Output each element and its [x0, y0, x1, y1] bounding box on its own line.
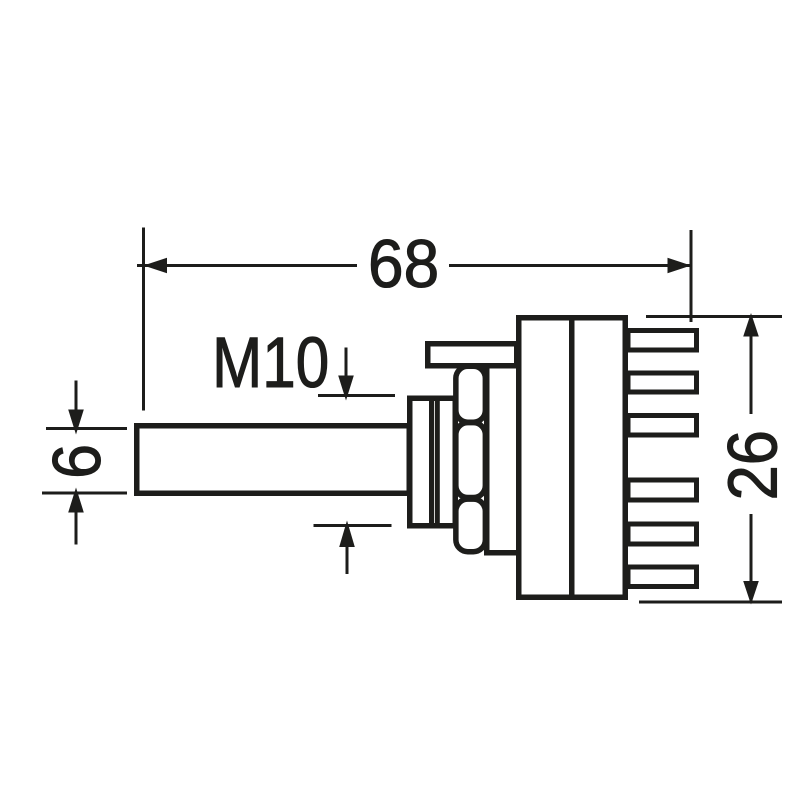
dim 6 arrowhead up-pointing — [68, 488, 84, 513]
pin 4 — [628, 480, 697, 500]
bushing thread line 1 — [429, 398, 434, 526]
M10 lower arrow shaft — [346, 546, 349, 574]
svg-text:6: 6 — [39, 444, 115, 479]
M10 upper reference line — [318, 394, 395, 397]
dim 26 line upper segment — [750, 317, 753, 415]
dim 68 extension line right — [690, 230, 693, 322]
anti-rotation tab — [428, 344, 517, 366]
M10 upper arrowhead down-pointing — [338, 376, 354, 401]
dim 26 arrow up — [743, 313, 759, 337]
dim 26 extension line bottom — [639, 601, 782, 604]
svg-text:26: 26 — [715, 430, 793, 500]
bushing thread line 2 — [435, 398, 440, 526]
body internal line — [569, 317, 575, 598]
pin 6 — [628, 567, 697, 587]
M10 upper arrow shaft — [345, 348, 348, 379]
dim 68 extension line left — [142, 228, 145, 411]
dim 6 extension line bottom — [42, 492, 127, 495]
dim 26 line lower segment — [750, 514, 753, 602]
dim 6 arrow shaft up — [75, 381, 78, 413]
dim 26 extension line top — [646, 315, 782, 318]
pin 3 — [628, 416, 697, 436]
dim 68 arrow right — [668, 258, 692, 274]
dim 26 arrow down — [743, 581, 759, 605]
hex nut facet 3 (bottom) — [456, 499, 486, 552]
dim 6 extension line top — [46, 427, 127, 430]
switch body — [519, 318, 626, 598]
svg-text:M10: M10 — [212, 322, 329, 402]
hex nut facet 2 (middle) — [456, 423, 486, 498]
pin 1 — [628, 331, 697, 351]
dim 6 arrow shaft down — [75, 511, 78, 545]
dim 68 line right segment — [449, 264, 691, 267]
M10 lower arrowhead up-pointing — [339, 521, 355, 548]
pin 5 — [628, 524, 697, 544]
hex nut facet 1 (top) — [456, 366, 486, 422]
dim 68 arrow left — [144, 258, 168, 274]
dim 68 line left segment — [137, 264, 357, 267]
shaft (6mm dia) — [137, 426, 410, 494]
threaded bushing M10 — [410, 398, 456, 526]
svg-text:68: 68 — [368, 225, 439, 301]
pin 2 — [628, 373, 697, 392]
dim 6 arrowhead down-pointing — [68, 410, 84, 435]
M10 lower reference line — [314, 524, 392, 527]
washer / front plate — [487, 365, 519, 553]
